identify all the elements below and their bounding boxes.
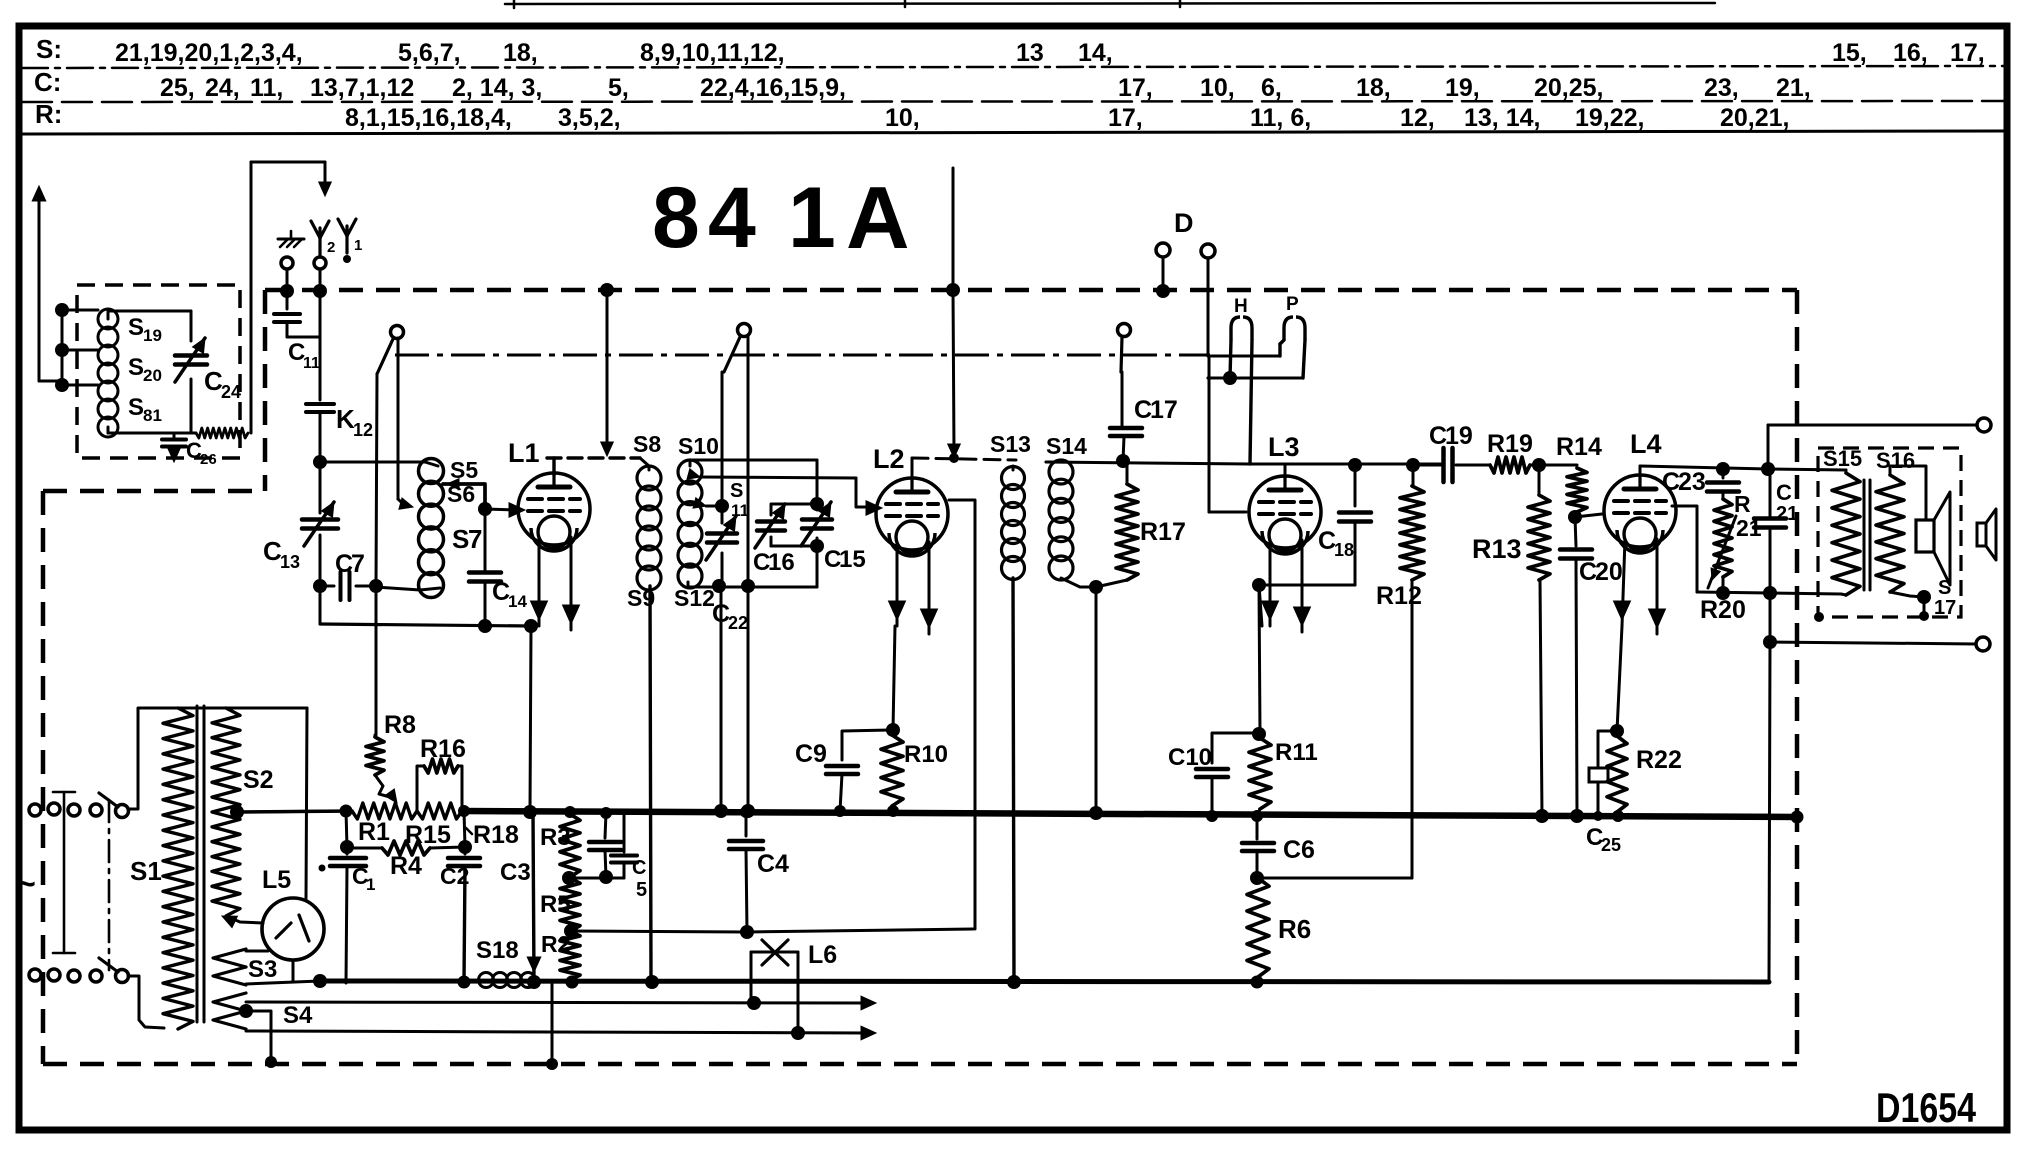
- valve L4: [1604, 475, 1676, 547]
- capacitor C19: [1413, 464, 1441, 467]
- L1 grid-cap line to S8: [552, 458, 555, 475]
- coil terminal node 3: [55, 378, 69, 392]
- svg-text:R17: R17: [1140, 518, 1186, 546]
- svg-text:18,: 18,: [503, 39, 538, 67]
- headphone jack H: [1231, 317, 1240, 340]
- svg-text:R: R: [1734, 491, 1751, 517]
- svg-text:23: 23: [1678, 468, 1706, 496]
- heater winding S3: [213, 949, 246, 967]
- transformer primary S15: [1768, 469, 1846, 470]
- svg-text:20: 20: [143, 366, 162, 385]
- switch to transformer wire lower: [128, 976, 164, 1028]
- resistor R16: [417, 766, 424, 811]
- capacitor C26 to ground: [173, 433, 176, 438]
- svg-text:S16: S16: [1876, 448, 1915, 473]
- switch blade S1a: [377, 339, 393, 374]
- top feed arrow into grid line: [606, 290, 609, 449]
- pilot lamp L5: [262, 898, 324, 960]
- svg-text:18,: 18,: [1356, 74, 1391, 102]
- svg-text:L5: L5: [262, 866, 291, 894]
- output terminal wire top: [1767, 425, 1770, 469]
- svg-text:5: 5: [636, 879, 647, 901]
- svg-text:3,5,2,: 3,5,2,: [558, 104, 621, 132]
- heater line B: [246, 1031, 868, 1033]
- bottom junction wire: [1697, 592, 1770, 593]
- svg-text:L4: L4: [1630, 429, 1662, 459]
- S2 top wire to lamp: [164, 707, 307, 710]
- aerial symbol Y1: [345, 226, 348, 253]
- svg-text:R14: R14: [1556, 433, 1602, 461]
- L4 plate line: [1639, 466, 1642, 477]
- svg-text:S: S: [730, 480, 743, 502]
- svg-text:11, 6,: 11, 6,: [1250, 104, 1311, 132]
- wire to L2 grid: [856, 478, 874, 507]
- heater winding S4: [213, 993, 246, 1011]
- svg-text:L2: L2: [873, 444, 905, 474]
- capacitor C14: [484, 509, 487, 570]
- antenna down-lead: [32, 186, 46, 201]
- mains terminals upper: [29, 804, 41, 816]
- valve L2: [876, 478, 948, 550]
- svg-text:21,: 21,: [1776, 74, 1811, 102]
- IF coil S13: [1002, 467, 1025, 490]
- svg-text:R19: R19: [1487, 430, 1533, 458]
- ganged-switch dash-dot line: [395, 354, 1210, 357]
- wire K12 to junction: [319, 412, 322, 513]
- capacitor C21: [1769, 469, 1772, 517]
- svg-text:26: 26: [200, 451, 217, 468]
- svg-text:R8: R8: [384, 711, 416, 739]
- L4 heater leads: [1622, 539, 1625, 626]
- terminal dot Y1: [343, 255, 351, 263]
- S16 bottom wire: [1890, 592, 1924, 597]
- svg-text:S: S: [128, 314, 144, 341]
- transformer secondary S16: [1876, 475, 1904, 592]
- grid return wire: [571, 931, 747, 932]
- svg-text:13,7,1,12: 13,7,1,12: [310, 74, 414, 102]
- speaker cone: [1934, 492, 1950, 585]
- valve L1: [518, 473, 590, 545]
- svg-text:13, 14,: 13, 14,: [1464, 104, 1540, 132]
- parts-list row separator C/R: [22, 101, 2005, 102]
- valve L3: [1249, 476, 1321, 548]
- wire above chassis line: [952, 168, 955, 290]
- resistor R8: [374, 735, 377, 737]
- coil top wire to C15 branch: [690, 459, 817, 462]
- svg-text:20,25,: 20,25,: [1534, 74, 1604, 102]
- top edge scan line: [505, 3, 1715, 4]
- capacitor C4: [740, 806, 752, 818]
- cathode rail down to bus: [524, 619, 538, 633]
- wire coil bottom: [107, 427, 110, 433]
- S2 bottom arrow to lamp: [222, 916, 237, 928]
- resistor R10: [881, 735, 903, 806]
- S3 top wire: [246, 950, 268, 953]
- variable resistor R21: [1722, 492, 1725, 499]
- svg-text:S: S: [128, 354, 144, 381]
- chassis dashed boundary left lower: [41, 491, 46, 1064]
- resistor R22: [1607, 736, 1627, 812]
- switch gang dash-dot: [108, 800, 111, 970]
- mains terminals lower: [29, 969, 41, 981]
- switch contact circle S2a: [738, 324, 751, 337]
- wire R3 junction: [569, 877, 624, 880]
- svg-text:81: 81: [143, 406, 162, 425]
- R12 return to C6: [1257, 877, 1412, 880]
- svg-text:~: ~: [16, 865, 36, 903]
- svg-text:25: 25: [1601, 835, 1621, 855]
- svg-text:S13: S13: [990, 431, 1031, 457]
- svg-text:R20: R20: [1700, 596, 1746, 624]
- wire Y2 terminal down: [319, 269, 322, 400]
- resistor R4: [340, 840, 354, 854]
- switch blade wire down to R8: [376, 374, 377, 586]
- S13 return: [1013, 578, 1014, 982]
- aerial symbol Y2: [318, 228, 321, 255]
- switch fixed wire down to bus: [747, 337, 750, 586]
- svg-text:R2: R2: [541, 931, 570, 957]
- svg-text:4: 4: [708, 170, 756, 266]
- resistor R14: [1539, 464, 1577, 467]
- svg-text:15,: 15,: [1832, 39, 1867, 67]
- svg-text:D1654: D1654: [1876, 1084, 1977, 1131]
- parts-list row separator S/C: [22, 66, 2005, 68]
- svg-text:D: D: [1174, 208, 1194, 238]
- capacitor C9: [842, 730, 893, 760]
- potentiometer R1: [352, 803, 417, 819]
- capacitor C10: [1212, 733, 1259, 763]
- svg-text:R3: R3: [540, 824, 571, 851]
- L2 plate line to S13: [911, 458, 914, 479]
- svg-text:S2: S2: [243, 766, 274, 794]
- resistor R11: [1249, 738, 1271, 809]
- capacitor K12: [306, 402, 334, 406]
- transformer core: [196, 706, 199, 1022]
- svg-text:S1: S1: [130, 856, 162, 886]
- variable capacitor C15: [816, 460, 819, 510]
- svg-text:20,21,: 20,21,: [1720, 104, 1790, 132]
- svg-text:15: 15: [839, 546, 866, 573]
- svg-text:R4: R4: [390, 852, 422, 880]
- wire ground terminal down: [286, 269, 289, 309]
- svg-text:S15: S15: [1823, 446, 1862, 471]
- svg-text:R15: R15: [405, 821, 451, 849]
- svg-text:24: 24: [221, 382, 241, 402]
- svg-text:A: A: [846, 168, 910, 267]
- svg-text:S: S: [1938, 577, 1951, 599]
- svg-text:18: 18: [1334, 540, 1354, 560]
- L1 heater leads: [538, 537, 541, 626]
- svg-text:R12: R12: [1376, 582, 1422, 610]
- resistor R13: [1538, 465, 1541, 495]
- svg-text:C2: C2: [440, 863, 469, 889]
- speaker icon right: [1977, 523, 1986, 546]
- svg-text:L6: L6: [808, 941, 837, 969]
- svg-text:12: 12: [353, 420, 373, 440]
- svg-text:C: C: [1776, 480, 1792, 505]
- svg-text:L3: L3: [1268, 432, 1300, 462]
- trimmer C16: [771, 504, 817, 515]
- svg-text:6,: 6,: [1261, 74, 1282, 102]
- svg-text:R:: R:: [35, 99, 62, 129]
- resistor R2: [560, 931, 580, 980]
- S3 bottom wire to heater bus: [246, 981, 320, 984]
- output return down: [1769, 642, 1770, 982]
- svg-text:20: 20: [1595, 558, 1623, 586]
- lamp bottom wire: [292, 960, 295, 981]
- svg-text:13: 13: [1016, 39, 1044, 67]
- parts-list row separator R/body: [22, 131, 2005, 134]
- heater lead continues to heater bus: [533, 812, 534, 982]
- svg-text:12,: 12,: [1400, 104, 1435, 132]
- svg-text:14,: 14,: [1078, 39, 1113, 67]
- svg-text:2, 14, 3,: 2, 14, 3,: [452, 74, 542, 102]
- capacitor C1: [346, 847, 349, 854]
- S11 tap: [693, 498, 706, 508]
- H P common wire: [1208, 377, 1303, 380]
- tap S5/S6 to grid wire: [443, 484, 485, 509]
- link element to chassis wire: [196, 428, 248, 438]
- anode feed from chassis line: [953, 290, 954, 451]
- L2 cathode to R10: [893, 626, 895, 730]
- svg-text:19,: 19,: [1445, 74, 1480, 102]
- L3 heater leads: [1269, 540, 1272, 626]
- svg-text:21,19,20,1,2,3,4,: 21,19,20,1,2,3,4,: [115, 39, 303, 67]
- svg-text:17: 17: [1150, 396, 1178, 424]
- svg-text:19: 19: [1445, 422, 1473, 450]
- svg-text:22,4,16,15,9,: 22,4,16,15,9,: [700, 74, 846, 102]
- L2 heater leads: [896, 542, 899, 626]
- svg-text:S: S: [128, 394, 144, 421]
- S10 tap arrow upper: [687, 469, 700, 479]
- svg-text:C9: C9: [795, 740, 827, 768]
- chassis dashed boundary left upper: [263, 290, 268, 491]
- filament choke S18: [479, 973, 494, 988]
- speaker driver: [1916, 520, 1934, 552]
- S4 centre tap: [239, 1004, 253, 1018]
- svg-text:5,6,7,: 5,6,7,: [398, 39, 461, 67]
- coil terminal node 1: [55, 303, 69, 317]
- resistor R19: [1490, 457, 1530, 473]
- terminal D left: [1156, 243, 1170, 257]
- resistor R12: [1406, 458, 1420, 472]
- C22 return to bus: [720, 586, 723, 811]
- L3 plate line: [1284, 464, 1287, 477]
- svg-text:C:: C:: [34, 67, 61, 97]
- svg-text:14: 14: [508, 592, 527, 611]
- svg-text:S: S: [452, 524, 469, 554]
- IF coil S14: [1049, 460, 1073, 484]
- capacitor C3: [600, 807, 612, 819]
- wire junction to S5 coil top: [320, 462, 438, 466]
- S14 bottom to junction: [1061, 578, 1096, 587]
- switch wiper wire to S6 tap: [397, 338, 400, 499]
- trimmer C22: [721, 506, 724, 523]
- resistor R17: [1126, 463, 1129, 484]
- svg-text:19: 19: [143, 326, 162, 345]
- svg-text:C: C: [632, 857, 646, 879]
- wire C13 to C7 junction: [319, 535, 322, 624]
- svg-text:1: 1: [788, 170, 836, 266]
- switch blade S2a: [724, 337, 740, 372]
- chassis dashed boundary top: [265, 288, 1797, 293]
- svg-text:S5: S5: [450, 457, 478, 483]
- terminal ground: [281, 257, 293, 269]
- svg-text:R18: R18: [473, 821, 519, 849]
- mains link bar: [63, 792, 66, 953]
- switch blade S3a: [1121, 337, 1122, 372]
- svg-text:R5: R5: [540, 891, 571, 918]
- output wire bottom: [1769, 593, 1772, 642]
- svg-text:8,9,10,11,12,: 8,9,10,11,12,: [640, 39, 785, 67]
- capacitor C23: [1722, 469, 1725, 478]
- svg-text:5,: 5,: [608, 74, 629, 102]
- svg-text:R6: R6: [1278, 914, 1311, 944]
- S2 tap to bus: [230, 805, 244, 819]
- switch blade wire down: [721, 372, 724, 506]
- output terminal top: [1977, 418, 1991, 432]
- resistor R5: [560, 878, 580, 931]
- L3 grid entry: [1209, 511, 1246, 514]
- svg-text:S4: S4: [283, 1002, 313, 1029]
- wire from C24 box up and over: [250, 162, 253, 433]
- heater bus: [320, 981, 1769, 982]
- svg-text:10,: 10,: [885, 104, 920, 132]
- svg-text:R1: R1: [358, 818, 390, 846]
- speaker dashed box: [1818, 448, 1961, 617]
- wire coil top to C24: [108, 310, 191, 313]
- svg-text:7: 7: [351, 550, 365, 578]
- heater line A: [246, 1002, 868, 1003]
- capacitor C6: [1256, 816, 1259, 839]
- svg-text:2: 2: [327, 239, 335, 256]
- variable capacitor C13: [302, 517, 338, 522]
- capacitor C17: [1121, 425, 1124, 426]
- svg-text:H: H: [1234, 296, 1248, 317]
- wire to lower rail: [320, 624, 531, 626]
- resistor R6: [1247, 878, 1269, 977]
- frame aerial coil S19 S20 S81: [98, 309, 118, 329]
- svg-text:C10: C10: [1168, 744, 1212, 771]
- capacitor C25: [1598, 731, 1617, 768]
- wire R14 to L4 grid: [1575, 514, 1602, 517]
- svg-text:S:: S:: [36, 34, 62, 64]
- svg-text:S12: S12: [674, 585, 715, 611]
- resistor R15: [417, 803, 462, 819]
- pickup jack P: [1284, 317, 1293, 340]
- svg-text:S3: S3: [248, 956, 277, 983]
- box bottom wire: [687, 582, 690, 587]
- svg-text:22: 22: [728, 613, 748, 633]
- svg-text:C4: C4: [757, 850, 789, 878]
- variable capacitor C24: [175, 353, 207, 358]
- junction down to bus: [1095, 587, 1098, 813]
- wire D down to L3 grid: [1208, 356, 1211, 512]
- L2 grid return down: [949, 500, 975, 929]
- svg-text:8: 8: [652, 170, 700, 266]
- L4 cathode to R22: [1617, 626, 1622, 731]
- mains switch blade lower: [116, 970, 129, 983]
- svg-text:10,: 10,: [1200, 74, 1235, 102]
- svg-text:17,: 17,: [1108, 104, 1143, 132]
- svg-text:S10: S10: [678, 433, 719, 459]
- wire D to pickup jack: [1208, 355, 1280, 358]
- capacitor C5: [623, 813, 626, 852]
- svg-text:17: 17: [1934, 597, 1956, 619]
- frame aerial dashed box: [77, 285, 240, 458]
- chassis drop wire 1: [551, 984, 554, 1064]
- svg-text:C3: C3: [500, 859, 531, 886]
- svg-text:11: 11: [303, 355, 320, 372]
- switch contact circle S1a: [391, 326, 404, 339]
- svg-text:8,1,15,16,18,4,: 8,1,15,16,18,4,: [345, 104, 512, 132]
- terminal link wire: [61, 310, 64, 385]
- tuning coil S5 S6 S7: [419, 459, 444, 484]
- S14 top wire: [1046, 461, 1061, 464]
- svg-text:S14: S14: [1046, 433, 1087, 459]
- svg-text:11,: 11,: [250, 74, 283, 102]
- L3 cathode junction: [1252, 578, 1266, 592]
- svg-text:L1: L1: [508, 438, 540, 468]
- switch to transformer wire upper: [128, 708, 164, 809]
- svg-text:C6: C6: [1283, 836, 1315, 864]
- svg-text:P: P: [1286, 294, 1299, 315]
- S8 return to heater bus: [650, 586, 651, 982]
- chassis dashed boundary right: [1795, 290, 1800, 1064]
- terminal D right: [1201, 244, 1215, 258]
- terminal Y2: [314, 257, 326, 269]
- svg-text:R10: R10: [904, 741, 948, 768]
- capacitor C7 in wire: [320, 585, 334, 588]
- S16 top wire: [1890, 466, 1926, 520]
- transformer secondary S2: [212, 708, 240, 916]
- svg-text:S8: S8: [633, 431, 661, 457]
- svg-text:7: 7: [468, 524, 482, 554]
- L4 grid2 wire right: [1672, 506, 1697, 592]
- transformer primary S1: [163, 708, 193, 1029]
- IF coil S8: [637, 466, 661, 490]
- svg-text:19,22,: 19,22,: [1575, 104, 1645, 132]
- svg-text:1: 1: [366, 875, 375, 894]
- svg-text:23,: 23,: [1704, 74, 1739, 102]
- main HT bus: [240, 811, 352, 812]
- coil terminal node 2: [55, 343, 69, 357]
- bandpass coil S10 S12: [678, 460, 702, 484]
- svg-text:1: 1: [354, 237, 362, 254]
- transformer core: [1863, 480, 1866, 590]
- capacitor C18: [1348, 458, 1362, 472]
- svg-text:17,: 17,: [1950, 39, 1985, 67]
- chassis dashed boundary bottom: [43, 1062, 1797, 1067]
- capacitor C20: [1575, 517, 1576, 546]
- svg-text:16,: 16,: [1893, 39, 1928, 67]
- svg-text:16: 16: [768, 549, 795, 576]
- svg-text:S18: S18: [476, 937, 519, 964]
- svg-text:R11: R11: [1275, 739, 1318, 766]
- svg-text:R16: R16: [420, 735, 466, 763]
- svg-text:21: 21: [1776, 503, 1798, 525]
- resistor R3: [564, 806, 576, 818]
- svg-text:17,: 17,: [1118, 74, 1153, 102]
- svg-text:24,: 24,: [205, 74, 240, 102]
- ground symbol: [278, 238, 304, 241]
- capacitor C11: [274, 312, 300, 316]
- dial lamp L6: [750, 952, 753, 1003]
- chassis dashed boundary jog: [43, 489, 265, 494]
- output terminal bottom: [1976, 637, 1990, 651]
- capacitor C2: [464, 847, 467, 854]
- svg-text:25,: 25,: [160, 74, 195, 102]
